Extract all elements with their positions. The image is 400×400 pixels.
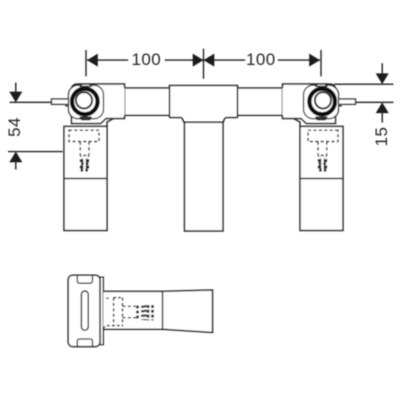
svg-text:54: 54 (5, 117, 24, 137)
svg-text:100: 100 (246, 50, 276, 69)
svg-text:15: 15 (372, 127, 391, 147)
svg-text:100: 100 (132, 50, 162, 69)
